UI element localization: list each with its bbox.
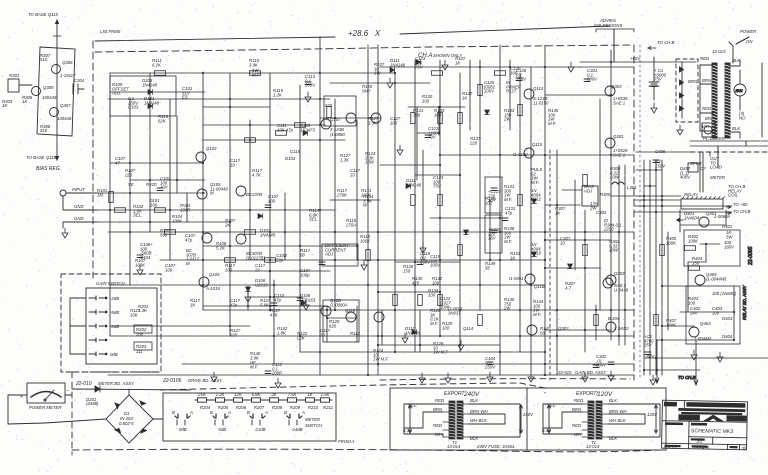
svg-text:C10?100p: C10?100p bbox=[300, 268, 311, 277]
wire bbox=[109, 73, 111, 336]
wire meter right bbox=[65, 394, 72, 396]
capacitor bbox=[645, 352, 651, 355]
resistor bbox=[115, 208, 126, 213]
wire bbox=[599, 99, 601, 310]
wire bbox=[644, 185, 656, 187]
wire bottom dashed boundary bbox=[72, 449, 660, 452]
junction bbox=[377, 231, 379, 233]
junction bbox=[377, 259, 379, 261]
wire bbox=[543, 404, 582, 434]
ground bbox=[651, 103, 657, 113]
junction bbox=[618, 231, 620, 233]
svg-text:A: A bbox=[301, 410, 305, 415]
junction bbox=[544, 231, 546, 233]
wire bbox=[356, 306, 358, 342]
ground bbox=[397, 145, 403, 155]
switch arrows bbox=[289, 420, 297, 425]
svg-text:ON: ON bbox=[746, 39, 753, 44]
svg-text:6.8K: 6.8K bbox=[252, 392, 262, 397]
diode bbox=[568, 264, 573, 269]
svg-text:R209: R209 bbox=[290, 405, 301, 410]
wire bbox=[417, 132, 440, 134]
junction bbox=[584, 239, 586, 241]
transistor Q113 bbox=[524, 148, 534, 158]
ground bbox=[650, 375, 656, 385]
svg-text:TO CH.B: TO CH.B bbox=[657, 40, 674, 45]
wire bbox=[408, 106, 465, 108]
ground bbox=[528, 372, 534, 382]
diodes BR bbox=[680, 67, 684, 111]
ground bbox=[487, 372, 493, 382]
junction bbox=[367, 199, 369, 201]
svg-text:240V FUSE: 3A6SL: 240V FUSE: 3A6SL bbox=[476, 444, 516, 449]
junction bbox=[326, 309, 328, 311]
diode bbox=[148, 90, 153, 95]
wire bbox=[72, 389, 190, 395]
svg-text:Q305: Q305 bbox=[43, 85, 54, 90]
transistor Q103 bbox=[202, 233, 212, 243]
diode bbox=[246, 287, 251, 292]
wire gnd1 bbox=[63, 196, 97, 210]
ground bbox=[717, 352, 723, 362]
junction bbox=[519, 309, 521, 311]
wire bbox=[608, 414, 645, 424]
junction bbox=[489, 259, 491, 261]
wire bbox=[667, 232, 669, 330]
svg-text:BLK: BLK bbox=[609, 436, 618, 441]
svg-text:BIAS REG.: BIAS REG. bbox=[36, 166, 61, 172]
contact dot bbox=[105, 353, 107, 355]
junction bbox=[273, 296, 275, 298]
resistor R206 bbox=[234, 398, 243, 402]
wire gain bd dashed bbox=[380, 379, 630, 380]
junction bbox=[273, 284, 275, 286]
junction bbox=[249, 209, 251, 211]
svg-text:Q401: Q401 bbox=[706, 211, 717, 216]
transistor Q120 bbox=[606, 322, 616, 332]
junction bbox=[618, 335, 620, 337]
box bias network bbox=[37, 47, 75, 136]
svg-text:A-4312: A-4312 bbox=[663, 444, 679, 449]
svg-text:TO CH.B: TO CH.B bbox=[733, 209, 750, 214]
appr bar bbox=[665, 422, 683, 425]
wire bbox=[680, 311, 734, 313]
svg-text:RED: RED bbox=[572, 423, 581, 428]
svg-text:Q103: Q103 bbox=[206, 146, 217, 151]
resistor R207 bbox=[252, 398, 261, 402]
wire bbox=[419, 310, 421, 352]
transistor Q109 bbox=[321, 306, 331, 316]
node +28.6 X rail bbox=[95, 37, 335, 41]
junction bbox=[269, 305, 271, 307]
transistor Q117 bbox=[605, 86, 615, 96]
resistor bbox=[478, 85, 483, 96]
wire bbox=[203, 245, 357, 247]
switch arrows bbox=[215, 420, 223, 425]
wire bbox=[695, 340, 697, 372]
svg-text:BLK: BLK bbox=[470, 436, 479, 441]
wire chassis dashed right bbox=[633, 45, 635, 380]
capacitor bbox=[491, 230, 497, 233]
svg-text:100 (1N60E): 100 (1N60E) bbox=[712, 291, 737, 296]
svg-text:0dB: 0dB bbox=[110, 352, 118, 357]
junction bbox=[595, 309, 597, 311]
junction bbox=[319, 351, 321, 353]
capacitor bbox=[608, 362, 614, 365]
junction bbox=[319, 98, 321, 100]
svg-text:Q301: Q301 bbox=[613, 134, 624, 139]
capacitor bbox=[265, 205, 271, 208]
junction bbox=[499, 351, 501, 353]
logo S bbox=[679, 415, 699, 420]
junction bbox=[229, 325, 231, 327]
junction bbox=[269, 270, 271, 272]
b2 bbox=[692, 445, 708, 448]
junction bbox=[733, 311, 735, 313]
breaker bbox=[704, 126, 712, 134]
wire chassis dashed left bbox=[92, 41, 94, 278]
wire bbox=[108, 374, 634, 376]
svg-text:GND: GND bbox=[74, 216, 84, 221]
junction bbox=[439, 217, 441, 219]
wire bbox=[469, 414, 505, 424]
svg-text:C304: C304 bbox=[74, 78, 85, 83]
svg-text:BRN: BRN bbox=[702, 78, 712, 83]
dim arrows bbox=[409, 405, 658, 433]
ground bbox=[445, 373, 451, 383]
svg-text:BC237B: BC237B bbox=[246, 192, 262, 197]
wire bbox=[203, 305, 327, 307]
box q108 bbox=[323, 300, 359, 342]
capacitor bbox=[502, 218, 508, 221]
junction bbox=[202, 284, 204, 286]
svg-text:BRN: BRN bbox=[433, 407, 443, 412]
transistor Q119 bbox=[606, 275, 616, 285]
wire bbox=[439, 60, 441, 336]
svg-text:Q107: Q107 bbox=[330, 117, 341, 122]
junction bbox=[438, 106, 440, 108]
wire bbox=[469, 60, 471, 130]
resistor bbox=[518, 195, 523, 206]
ground bbox=[137, 265, 143, 275]
svg-text:WH: WH bbox=[435, 432, 443, 437]
resistor bbox=[660, 245, 665, 256]
wire bbox=[681, 62, 683, 118]
wire right edge bbox=[746, 63, 762, 146]
resistor R211 bbox=[321, 398, 330, 402]
wire bbox=[634, 199, 680, 201]
junction bbox=[381, 335, 383, 337]
svg-text:R305: R305 bbox=[600, 192, 611, 197]
resistor bbox=[327, 107, 332, 118]
svg-text:A: A bbox=[264, 410, 268, 415]
wire bbox=[326, 306, 328, 342]
wire bbox=[545, 267, 600, 269]
wire bbox=[687, 262, 689, 312]
svg-text:1.3K: 1.3K bbox=[138, 308, 148, 313]
wire bbox=[543, 412, 582, 428]
svg-text:R119100K: R119100K bbox=[360, 234, 371, 243]
resistor bbox=[411, 113, 416, 124]
svg-text:SCHEMATIC MK3: SCHEMATIC MK3 bbox=[691, 428, 733, 435]
diode bbox=[301, 301, 306, 306]
wire bbox=[440, 154, 634, 156]
L301 coil bbox=[612, 182, 624, 184]
model bar bbox=[691, 438, 705, 440]
resistor bbox=[478, 315, 483, 326]
ground bbox=[419, 373, 425, 383]
wire bbox=[459, 73, 461, 352]
junction bbox=[544, 374, 546, 376]
junction bbox=[334, 231, 336, 233]
box export bbox=[390, 388, 666, 450]
svg-text:RED: RED bbox=[433, 423, 442, 428]
svg-text:100446: 100446 bbox=[57, 116, 72, 121]
resistor bbox=[438, 113, 443, 124]
wire bbox=[129, 99, 131, 285]
junction bbox=[334, 117, 336, 119]
wire bbox=[378, 291, 440, 293]
logo E bbox=[727, 416, 746, 421]
wire bbox=[356, 120, 358, 260]
junction bbox=[377, 363, 379, 365]
wire bbox=[680, 224, 726, 226]
wire bbox=[489, 200, 491, 260]
wire bbox=[545, 204, 580, 206]
contact dot bbox=[105, 325, 107, 327]
svg-text:1.5K: 1.5K bbox=[321, 392, 331, 397]
capacitor bbox=[417, 262, 423, 265]
svg-text:RED: RED bbox=[435, 398, 444, 403]
svg-text:R104100K: R104100K bbox=[172, 214, 183, 223]
diode bbox=[412, 330, 417, 335]
svg-text:+28.6 X: +28.6 X bbox=[348, 29, 381, 38]
junction bbox=[661, 195, 663, 197]
wire bbox=[545, 239, 611, 241]
resistor bbox=[689, 266, 700, 271]
junction bbox=[394, 82, 396, 84]
ground bbox=[275, 378, 281, 388]
junction bbox=[394, 72, 396, 74]
svg-text:RELAY: RELAY bbox=[684, 192, 699, 197]
wire bbox=[169, 99, 171, 260]
junction bbox=[319, 209, 321, 211]
box relay1 bbox=[684, 230, 740, 266]
svg-text:R407100K: R407100K bbox=[666, 318, 677, 327]
junction bbox=[661, 199, 663, 201]
svg-text:RELAY BD. ASSY: RELAY BD. ASSY bbox=[742, 284, 747, 320]
resistor R202 bbox=[134, 325, 152, 333]
wire bbox=[108, 98, 330, 100]
junction bbox=[149, 91, 151, 93]
svg-text:METER BD. ASSY.: METER BD. ASSY. bbox=[98, 381, 135, 386]
svg-text:22-0106: 22-0106 bbox=[162, 378, 182, 384]
box gain switch bbox=[86, 288, 157, 364]
wire to switch bbox=[729, 42, 733, 63]
transistor Q116 bbox=[603, 278, 613, 288]
junction bbox=[439, 164, 441, 166]
svg-text:RED: RED bbox=[700, 56, 709, 61]
svg-text:A-1016: A-1016 bbox=[205, 286, 220, 291]
junction bbox=[202, 162, 204, 164]
arrow toCHB bbox=[726, 212, 731, 215]
wire bbox=[381, 310, 383, 345]
resistor bbox=[495, 71, 506, 76]
wire bbox=[160, 259, 545, 261]
wire bbox=[662, 285, 700, 287]
svg-text:R1116.2K: R1116.2K bbox=[152, 58, 162, 67]
svg-text:1-0044M: 1-0044M bbox=[694, 336, 711, 341]
wire bbox=[634, 211, 732, 213]
wire bbox=[203, 309, 634, 311]
junction bbox=[202, 72, 204, 74]
wire bbox=[430, 217, 502, 219]
wire bbox=[700, 243, 720, 245]
junction bbox=[499, 154, 501, 156]
junction bbox=[655, 211, 657, 213]
svg-text:R208: R208 bbox=[272, 405, 283, 410]
svg-text:6.3V: 6.3V bbox=[403, 428, 413, 433]
wire bbox=[182, 363, 634, 365]
svg-text:510: 510 bbox=[40, 57, 48, 62]
wire bbox=[509, 60, 511, 130]
junction bbox=[556, 335, 558, 337]
junction bbox=[269, 309, 271, 311]
wire bbox=[422, 150, 424, 260]
junction bbox=[499, 231, 501, 233]
svg-text:B: B bbox=[172, 410, 175, 415]
wire bbox=[636, 169, 662, 171]
resistor bbox=[432, 71, 443, 76]
transistor Q107 bbox=[346, 113, 356, 123]
junction bbox=[459, 174, 461, 176]
svg-text:7.5K: 7.5K bbox=[288, 392, 298, 397]
svg-text:R401: R401 bbox=[722, 224, 733, 229]
wire bbox=[549, 150, 551, 380]
transistor Q115 bbox=[527, 325, 537, 335]
svg-text:R117270K: R117270K bbox=[336, 188, 348, 197]
svg-text:WH-BLK: WH-BLK bbox=[609, 418, 627, 423]
wire bbox=[269, 73, 271, 310]
junction bbox=[356, 245, 358, 247]
svg-text:-9dB: -9dB bbox=[110, 310, 119, 315]
wire bbox=[377, 45, 379, 375]
junction bbox=[202, 231, 204, 233]
junction bbox=[229, 221, 231, 223]
svg-text:200: 200 bbox=[135, 332, 144, 337]
svg-text:L50 FRME: L50 FRME bbox=[100, 29, 121, 34]
svg-text:240V: 240V bbox=[463, 391, 480, 398]
svg-text:Q30?: Q30? bbox=[558, 326, 569, 331]
svg-text:-80V: -80V bbox=[645, 354, 655, 359]
wire bbox=[530, 67, 532, 372]
wire bbox=[230, 270, 330, 272]
transformer T1 bbox=[443, 401, 469, 439]
junction bbox=[459, 309, 461, 311]
junction bbox=[584, 231, 586, 233]
junction bbox=[419, 344, 421, 346]
junction bbox=[556, 204, 558, 206]
junction bbox=[556, 309, 558, 311]
switch contacts bbox=[213, 414, 228, 418]
junction bbox=[109, 209, 111, 211]
junction bbox=[544, 66, 546, 68]
dashed gain box bbox=[61, 274, 161, 372]
wire bbox=[562, 189, 582, 191]
svg-text:R405100K: R405100K bbox=[666, 236, 677, 245]
junction bbox=[334, 259, 336, 261]
bias adj box bbox=[582, 186, 598, 206]
diode D201 bbox=[95, 386, 100, 392]
capacitor bbox=[425, 135, 431, 138]
capacitor bbox=[491, 188, 497, 191]
wire bbox=[610, 50, 612, 340]
junction bbox=[269, 259, 271, 261]
wire bbox=[438, 107, 440, 135]
wire bbox=[203, 124, 325, 126]
svg-text:FROM A: FROM A bbox=[338, 439, 355, 444]
transistor Q114 bbox=[525, 274, 535, 284]
wire bbox=[249, 120, 251, 260]
svg-text:B: B bbox=[247, 410, 250, 415]
wire bbox=[611, 195, 681, 197]
svg-text:RED: RED bbox=[574, 398, 583, 403]
svg-text:A: A bbox=[189, 410, 193, 415]
switch contact bbox=[89, 352, 104, 356]
contact dot bbox=[105, 311, 107, 313]
wire meter assy dashed left bbox=[71, 372, 73, 455]
svg-text:Q104: Q104 bbox=[209, 272, 220, 277]
svg-text:120V: 120V bbox=[597, 391, 613, 398]
wire bbox=[378, 344, 500, 346]
resistor bbox=[458, 245, 463, 256]
junction bbox=[229, 106, 231, 108]
wire bbox=[110, 335, 634, 337]
wire bbox=[97, 221, 230, 223]
svg-text:R211: R211 bbox=[323, 405, 334, 410]
svg-text:S-123B11-0150: S-123B11-0150 bbox=[533, 96, 549, 105]
capacitor bbox=[305, 82, 311, 85]
junction bbox=[544, 154, 546, 156]
resistor R301 bbox=[8, 79, 19, 92]
resistor bbox=[438, 195, 443, 206]
svg-text:GND: GND bbox=[74, 204, 84, 209]
resistor bbox=[109, 192, 114, 203]
junction bbox=[643, 369, 645, 371]
junction bbox=[439, 335, 441, 337]
resistor bbox=[583, 245, 588, 256]
capacitor bbox=[593, 365, 599, 368]
svg-text:25K: 25K bbox=[197, 392, 207, 397]
header bar2 bbox=[686, 402, 745, 408]
junction bbox=[643, 205, 645, 207]
junction bbox=[249, 124, 251, 126]
wire bbox=[195, 399, 332, 401]
wire bbox=[644, 357, 768, 359]
junction bbox=[367, 374, 369, 376]
svg-text:GAIN BD. ASSY: GAIN BD. ASSY bbox=[575, 370, 607, 375]
wire bbox=[580, 61, 696, 63]
svg-text:TO BASE Q115: TO BASE Q115 bbox=[28, 12, 59, 17]
wire bbox=[655, 160, 657, 375]
transistor Q106 bbox=[321, 119, 331, 129]
transistor Q122 bbox=[695, 275, 705, 285]
wire bbox=[300, 351, 545, 353]
junction bbox=[394, 309, 396, 311]
junction bbox=[247, 305, 249, 307]
wire bbox=[618, 165, 620, 345]
svg-text:C115: C115 bbox=[290, 149, 301, 154]
